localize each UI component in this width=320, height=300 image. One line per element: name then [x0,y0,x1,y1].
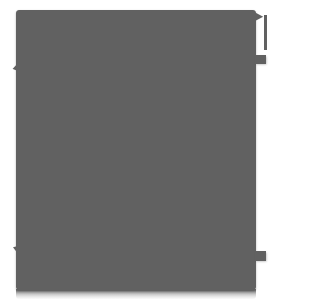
left arrow tip (upper, y~64-70) [12,64,17,71]
lower right band (bridges panel to image edge) [255,251,266,261]
left arrow tip (lower, y~246.5-252) [12,246,17,253]
upper right band (bridges panel to image edge) [255,55,266,64]
tooltip panel (main gray block) [16,10,256,290]
vertical bar (partially visible element at right edge) [264,15,267,50]
bottom drop shadow of tooltip panel [16,289,256,299]
tooltip arrow pointing right (right edge, y~12.5-21) [255,12,264,22]
